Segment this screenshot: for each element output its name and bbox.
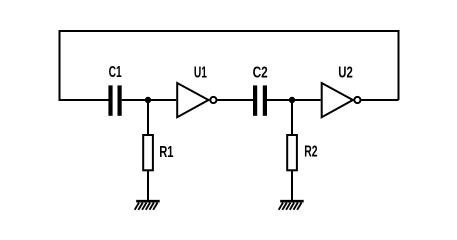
node: junction of C2/R2/U2 (289, 97, 295, 103)
capacitor C1 (111, 85, 120, 115)
ground symbol (under R1) (135, 201, 160, 210)
svg-text:C1: C1 (109, 64, 122, 81)
wire: U2 output to feedback loop (362, 99, 399, 101)
wire: junction down to R1 (147, 100, 149, 135)
wire: left vertical of feedback loop (59, 31, 61, 100)
wire: R1 to ground (147, 170, 149, 201)
wire: right vertical of feedback loop (398, 31, 400, 100)
svg-text:R1: R1 (159, 144, 174, 161)
inverter U1 (177, 83, 216, 117)
resistor R1 (143, 135, 153, 170)
wire: C2 to U2 input (267, 99, 321, 101)
wire: junction down to R2 (291, 100, 293, 135)
svg-text:U2: U2 (338, 64, 353, 81)
ground symbol (under R2) (279, 201, 304, 210)
node: junction of C1/R1/U1 (145, 97, 151, 103)
resistor R2 (287, 135, 297, 170)
svg-text:R2: R2 (304, 144, 317, 161)
capacitor C2 (255, 85, 265, 115)
wire: left rail to C1 (59, 99, 109, 101)
svg-text:C2: C2 (253, 64, 268, 81)
inverter U2 (322, 83, 361, 117)
wire: R2 to ground (291, 170, 293, 201)
svg-text:U1: U1 (194, 64, 207, 81)
wire: U1 output to C2 (218, 99, 254, 101)
wire: top feedback line (59, 30, 400, 32)
wire: C1 to U1 input (122, 99, 177, 101)
